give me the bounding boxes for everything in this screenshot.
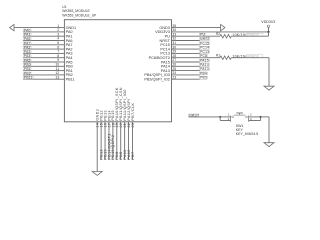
svg-text:PB11: PB11 (66, 78, 75, 82)
svg-text:KEY_6X6X4.5: KEY_6X6X4.5 (236, 132, 258, 136)
svg-text:WK553_MODULE_SP: WK553_MODULE_SP (62, 13, 97, 17)
svg-text:VDD3V3: VDD3V3 (261, 20, 275, 24)
svg-text:PB7/CLK: PB7/CLK (131, 103, 135, 121)
svg-text:R1: R1 (216, 54, 220, 58)
svg-text:PB7: PB7 (131, 151, 135, 159)
svg-text:PB11: PB11 (24, 76, 33, 80)
svg-text:PB3: PB3 (200, 76, 207, 80)
svg-text:PB3/QSPI_IO2: PB3/QSPI_IO2 (144, 78, 170, 82)
svg-text:R2: R2 (216, 32, 220, 36)
